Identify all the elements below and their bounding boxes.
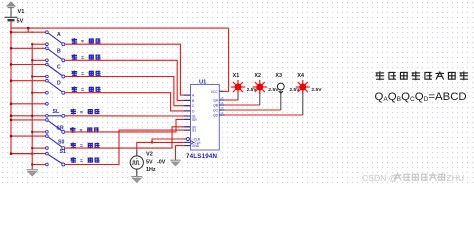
node: crossing at ground bus (S1) xyxy=(31,153,33,155)
svg-text:S0: S0 xyxy=(58,140,64,146)
wire: U1 QB output to X2 xyxy=(225,104,260,106)
pin S1 of U1 xyxy=(184,129,191,131)
wire: U1 QC output to X3 xyxy=(225,109,281,111)
svg-text:VCC: VCC xyxy=(211,90,219,94)
ground (below V2) xyxy=(131,177,142,183)
wire: X1 lead xyxy=(237,91,239,100)
wire: 5V stub to switch A upper throw xyxy=(11,31,45,33)
wire: X3 lead xyxy=(280,91,282,110)
svg-text:14: 14 xyxy=(220,101,224,105)
node: junction on ground bus (D) xyxy=(31,92,33,94)
value label: key = space for B xyxy=(72,55,76,60)
wire: VCC drop to U1 pin 16 xyxy=(223,28,229,91)
node: crossing at ground bus (SR) xyxy=(31,119,33,121)
node: junction on left bus (D) xyxy=(10,80,12,82)
pin QD (12) of U1 xyxy=(219,114,224,116)
svg-text:S1: S1 xyxy=(60,149,66,155)
svg-text:74LS194N: 74LS194N xyxy=(186,153,218,160)
wire: V2 to ground xyxy=(136,169,138,176)
node: crossing at ground bus (C) xyxy=(31,64,33,66)
node: junction on left bus (C) xyxy=(10,63,12,65)
svg-text:X3: X3 xyxy=(275,73,282,79)
svg-text:2.5V: 2.5V xyxy=(311,87,322,93)
node: junction on left bus (SR) xyxy=(10,119,12,121)
battery V1 5V xyxy=(10,8,12,17)
svg-text:A: A xyxy=(57,32,61,38)
svg-text:12: 12 xyxy=(220,111,224,115)
value label: key = space for D xyxy=(72,87,76,92)
svg-text:V2: V2 xyxy=(146,152,153,158)
wire: left 5V bus xyxy=(10,21,12,153)
op-amp U1 74LS194N (4-bit shift register IC) xyxy=(191,85,220,151)
svg-text:X2: X2 xyxy=(254,73,261,79)
pin GND of U1 xyxy=(184,145,191,147)
switch A (SPDT, key=space) xyxy=(46,31,49,34)
switch C (SPDT, key=space) xyxy=(46,63,49,66)
wire: ground stub to switch D lower throw xyxy=(32,92,45,94)
wire: 5V stub to switch D upper throw xyxy=(11,80,45,82)
wire: 5V stub to switch C upper throw xyxy=(11,64,45,66)
svg-text:B: B xyxy=(57,48,61,54)
svg-text:-0V: -0V xyxy=(157,160,166,166)
wire: V2 to CLK xyxy=(136,151,138,156)
svg-text:15: 15 xyxy=(220,96,224,100)
svg-text:S1: S1 xyxy=(192,129,196,133)
svg-text:CSDN @: CSDN @ xyxy=(362,173,397,183)
svg-text:U1: U1 xyxy=(199,79,206,85)
node: junction on left bus (SL) xyxy=(10,103,12,105)
svg-text:SR: SR xyxy=(57,125,64,131)
node: bus corner xyxy=(10,153,12,155)
svg-text:V1: V1 xyxy=(18,9,25,15)
wire: ground stub to switch A lower throw xyxy=(32,43,45,45)
svg-text:X1: X1 xyxy=(233,73,240,79)
lamp X2 2.5V xyxy=(253,80,267,94)
pin D of U1 xyxy=(184,110,191,112)
node: crossing at ground bus (SL) xyxy=(31,103,33,105)
pin CLK of U1 xyxy=(184,141,191,143)
node: CLR/CLK junction xyxy=(151,141,153,143)
value label: key = space for SR xyxy=(71,128,75,133)
wire: 5V stub to switch SR upper throw xyxy=(11,119,45,121)
value label: key = space for S0 xyxy=(71,143,75,148)
wire: ~CLR tie xyxy=(152,139,186,142)
wire: U1 QD output to X4 xyxy=(225,114,303,116)
node: ground-bus junction xyxy=(31,153,33,155)
node: junction on ground bus (S0) xyxy=(31,147,33,149)
svg-text:SR: SR xyxy=(192,118,197,122)
svg-text:=: = xyxy=(80,158,83,164)
pin QA (15) of U1 xyxy=(219,99,224,101)
svg-text:=: = xyxy=(80,110,83,116)
wire: 5V stub to switch S0 upper throw xyxy=(11,135,45,137)
pin SL of U1 xyxy=(184,115,191,117)
svg-text:=: = xyxy=(80,144,83,150)
wire: 5V stub to switch B upper throw xyxy=(11,47,45,49)
svg-text:1Hz: 1Hz xyxy=(146,167,156,173)
node: crossing at ground bus (S0) xyxy=(31,135,33,137)
wire: ground stub to switch SL lower throw xyxy=(11,115,45,117)
svg-text:X4: X4 xyxy=(297,73,304,79)
switch S1 (SPDT, key=space) xyxy=(46,152,49,155)
wire: ground stub to switch S0 lower throw xyxy=(32,147,45,149)
pin B of U1 xyxy=(184,99,191,101)
pin ~CLR of U1 xyxy=(184,138,186,140)
source V2 clock 5V -0V 1Hz xyxy=(130,156,143,169)
lamp X1 2.5V xyxy=(231,80,245,94)
pin QB (14) of U1 xyxy=(219,104,224,106)
node: junction on left bus (A) xyxy=(10,31,12,33)
value label: key = space for SL xyxy=(71,109,75,114)
wire: switch C pole to U1 xyxy=(65,77,190,106)
wire: U1 QA output to X1 xyxy=(225,99,238,101)
node: crossing at ground bus (D) xyxy=(31,80,33,82)
switch B (SPDT, key=space) xyxy=(46,47,49,50)
wire: 5V rail from V1 to VCC xyxy=(10,21,12,28)
lamp X4 2.5V xyxy=(296,80,310,94)
svg-text:QAQBQCQD=ABCD: QAQBQCQD=ABCD xyxy=(375,91,467,103)
pin SR of U1 xyxy=(184,118,191,120)
lamp X3 2.5V xyxy=(277,83,284,90)
node: junction on left bus (S1) xyxy=(10,153,12,155)
wire: switch B pole to U1 xyxy=(65,60,190,100)
node: junction on ground bus (A) xyxy=(31,43,33,45)
wire: switch SL pole to U1 xyxy=(65,115,190,117)
wire: bus bottom link xyxy=(11,153,32,155)
wire: short tie xyxy=(27,28,29,32)
node: junction on ground bus (C) xyxy=(31,76,33,78)
svg-text:QA: QA xyxy=(213,98,219,102)
pin S0 of U1 xyxy=(184,126,191,128)
svg-text:C: C xyxy=(57,65,61,71)
pin A of U1 xyxy=(184,94,191,96)
value label: key = space for S1 xyxy=(71,158,75,163)
svg-text:5V: 5V xyxy=(17,19,24,25)
node: crossing S1 riser / S0 wire xyxy=(118,147,120,149)
node: junction on ground bus (B) xyxy=(31,59,33,61)
svg-text:GND: GND xyxy=(192,144,200,148)
pin C of U1 xyxy=(184,105,191,107)
wire: ground stub to switch B lower throw xyxy=(32,59,45,61)
ground (at U1 GND) xyxy=(170,160,180,166)
svg-text:SL: SL xyxy=(53,109,60,115)
wire: ground bus xyxy=(31,44,33,169)
switch D (SPDT, key=space) xyxy=(46,79,49,82)
node: junction on left bus (S0) xyxy=(10,135,12,137)
wire: ground stub to switch S1 lower throw xyxy=(32,164,45,166)
wire: switch D pole to U1 xyxy=(65,93,190,111)
wire: U1 GND to ground xyxy=(176,146,184,160)
pin VCC (16) of U1 xyxy=(219,90,223,92)
value label: key = space for C xyxy=(72,71,76,76)
ground (main bus) xyxy=(26,170,38,176)
node: junction on left bus (B) xyxy=(10,47,12,49)
svg-text:ZHU: ZHU xyxy=(447,173,465,183)
wire: 5V stub to switch SL upper throw xyxy=(11,103,45,105)
node: junction on ground bus (S1) xyxy=(31,164,33,166)
svg-text:13: 13 xyxy=(220,106,224,110)
wire: switch S0 pole to U1 xyxy=(65,127,190,148)
wire: ground stub to switch C lower throw xyxy=(32,76,45,78)
switch S0 (SPDT, key=space) xyxy=(46,135,49,138)
svg-text:5V: 5V xyxy=(146,160,153,166)
node: junction on ground bus (SL) xyxy=(31,115,33,117)
svg-text:QD: QD xyxy=(213,113,219,117)
svg-text:=: = xyxy=(80,128,83,134)
wire: X2 lead xyxy=(259,91,261,105)
svg-text:D: D xyxy=(57,81,61,87)
node: crossing at ground bus (B) xyxy=(31,47,33,49)
wire: switch S1 pole to U1 xyxy=(65,130,190,164)
note: parallel output/input state text xyxy=(376,72,384,80)
wire: 5V stub to switch S1 upper throw xyxy=(11,153,45,155)
wire: switch A pole to U1 xyxy=(65,44,190,95)
svg-text:QB: QB xyxy=(213,103,219,107)
node: rail junction xyxy=(27,27,29,29)
value label: key = space for A xyxy=(72,39,76,44)
wire: switch SR pole to U1 xyxy=(65,119,190,131)
svg-text:QC: QC xyxy=(213,108,219,112)
switch SR (SPDT, key=space) xyxy=(46,119,49,122)
node: junction on ground bus (SR) xyxy=(31,131,33,133)
wire: ground stub to switch SR lower throw xyxy=(32,131,45,133)
ground (inverted, atop V1) xyxy=(7,2,16,8)
svg-text:2.5V: 2.5V xyxy=(247,87,258,93)
pin QC (13) of U1 xyxy=(219,109,224,111)
switch SL (SPDT, key=space) xyxy=(46,102,49,105)
wire: X4 lead xyxy=(302,91,304,115)
node: crossing at ground bus (A) xyxy=(31,31,33,33)
